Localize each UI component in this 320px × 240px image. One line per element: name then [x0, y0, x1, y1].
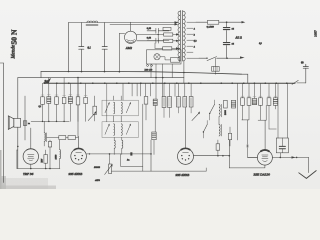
speaker cone [8, 116, 14, 130]
right bank drops [242, 83, 244, 98]
magic eye tube AM2 [125, 31, 137, 43]
rail Rb (mid bus) [18, 77, 184, 79]
coupling capacitor C14 [130, 152, 132, 155]
resistor [168, 97, 172, 108]
output transformer T2 [23, 121, 27, 126]
volume pot P2 [109, 164, 112, 174]
resistor [189, 97, 193, 108]
T2 top lead [24, 96, 26, 121]
capacitor C2 [102, 47, 107, 50]
capacitor C20 [303, 64, 308, 68]
V2 anode column [77, 78, 79, 97]
wire arrow [242, 21, 246, 23]
IF coil [114, 124, 115, 136]
output coupling box [276, 138, 288, 153]
electrolytic C13 [231, 100, 235, 108]
crossover x mark [246, 145, 248, 147]
long vertical to V4 grid [264, 120, 266, 150]
long vertical x=287.5 [287, 83, 289, 138]
IF trimmer [105, 125, 109, 134]
capacitor C8 [147, 38, 169, 43]
IF coil [114, 102, 115, 114]
electrolytic C10 [223, 43, 229, 45]
IF coil [121, 102, 122, 114]
middle band drops [131, 83, 133, 96]
svg-text:0,1/250: 0,1/250 [207, 25, 215, 28]
AVC pot arrow [192, 113, 199, 120]
chassis ground symbol [299, 171, 316, 179]
IF can 2 [102, 122, 138, 138]
transformer T1 core [181, 11, 183, 62]
volume pot P1 [93, 106, 97, 114]
eye feed wire row 2 [137, 40, 176, 42]
rail Rc thin right extension [297, 82, 306, 84]
band switch S1b [203, 125, 207, 133]
capacitor C1 [79, 47, 84, 50]
svg-text:1057: 1057 [314, 30, 318, 37]
wire V2-V3 coupling [86, 153, 151, 155]
V4 anode wire [272, 156, 308, 158]
junction dots on rail R2 [44, 71, 288, 84]
L1 core bar [86, 24, 98, 26]
T2 bottom lead [24, 125, 26, 140]
left bank bus [31, 120, 69, 122]
wire drop with C1 [81, 23, 83, 72]
resistor R13 [163, 27, 171, 30]
tube V4 RES964 [257, 150, 272, 165]
V3 grid lead [185, 108, 187, 149]
tube V3 935SN38 [178, 148, 194, 164]
svg-text:1000: 1000 [55, 154, 58, 160]
ground drop [308, 157, 310, 172]
pilot lamp box [147, 50, 182, 64]
junction blob / tap arrow at rails left [45, 79, 51, 84]
long vertical x=278 [276, 83, 279, 138]
resistor R27 [216, 144, 220, 150]
resistor R12 [163, 47, 172, 50]
T1 core ground drop [183, 61, 185, 83]
electrolytic C9 [226, 22, 228, 27]
wire drop with C2 [104, 23, 106, 72]
tube V1 TRF36 [23, 149, 38, 164]
cathode wire [17, 168, 60, 170]
T1 primary winding [178, 11, 180, 61]
left bank components [41, 97, 45, 105]
magic eye box left edge [118, 33, 120, 71]
resistor R22 [44, 155, 48, 164]
row3 riser [154, 43, 156, 48]
link row1-row2 [157, 35, 159, 41]
left component bank drops [42, 83, 44, 97]
grid return drop [248, 120, 258, 157]
svg-text:50 N: 50 N [10, 29, 19, 44]
svg-text:RE5 DAL30: RE5 DAL30 [253, 173, 271, 177]
can link wires [114, 116, 122, 122]
IF trimmer [126, 103, 130, 112]
T1 secondary winding [183, 11, 185, 61]
capacitor C7 [147, 28, 169, 33]
IF trimmer [126, 125, 130, 134]
link wire [47, 137, 78, 139]
rail Ra left riser [40, 71, 42, 77]
svg-text:m: m [28, 122, 30, 125]
V2 grid lead [78, 137, 80, 149]
rail Ra (HT bus) [41, 71, 242, 74]
wire left drop [68, 23, 70, 72]
V3 anode wire [194, 155, 230, 157]
component above V2 [77, 105, 79, 137]
page border line [0, 63, 4, 183]
svg-text:Mende: Mende [12, 44, 17, 59]
resistor R25 [228, 133, 231, 139]
svg-text:TRF 36: TRF 36 [23, 172, 34, 176]
antenna coil L1 [87, 21, 98, 23]
padder resistor R20 [59, 136, 66, 140]
pilot lamp [154, 54, 160, 60]
resistor [177, 97, 181, 108]
speaker coil box [14, 118, 21, 127]
electrolytic C12 [152, 132, 156, 140]
resistor R10 [164, 33, 173, 36]
speaker feed wire [17, 78, 19, 169]
svg-text:220 110: 220 110 [145, 69, 153, 72]
mains arrow [240, 56, 245, 58]
bottom wire right [229, 165, 265, 168]
lamp box drops to rails [151, 64, 172, 99]
second dial wire (with arrow) [110, 23, 175, 25]
resistor R24 [144, 97, 148, 105]
switch on Rc right [292, 80, 298, 84]
wire eye left [119, 32, 124, 34]
oscillator coil L2 [44, 133, 45, 141]
block capacitor box [212, 67, 220, 72]
fuse F1 [207, 20, 218, 24]
can feed drop [122, 83, 124, 100]
lamp series resistor [171, 58, 180, 63]
svg-text:0,1: 0,1 [39, 106, 42, 108]
right bank components [241, 98, 245, 106]
fuse wire [196, 21, 242, 23]
band switch S1a [210, 104, 215, 113]
IF trimmer [105, 103, 109, 112]
HT dropper vertical [228, 140, 230, 168]
svg-text:935 SN3B: 935 SN3B [176, 173, 190, 177]
IF coil [121, 124, 122, 136]
osc coil L4 [219, 104, 220, 116]
resistor [162, 97, 166, 108]
svg-text:935 SN3B: 935 SN3B [69, 172, 83, 176]
antenna trimmer riser [305, 68, 307, 83]
svg-text:4679: 4679 [95, 179, 101, 182]
padder resistor R21 [68, 136, 76, 140]
IF can 1 [102, 100, 138, 116]
resistor R26 [224, 100, 228, 108]
tube V2 935SN38 [71, 149, 87, 165]
scan shadow bottom-left [0, 178, 48, 189]
trimmer lead vertical [106, 83, 108, 122]
mains switch [199, 57, 227, 61]
V1 cathode lead [30, 164, 32, 168]
top wire to transformer (with arrow) [69, 22, 175, 24]
resistor R11 [164, 39, 173, 42]
rail Rc (ground bus) [44, 82, 295, 84]
electrolytic C11 [153, 99, 157, 105]
long vertical x=237.5 [237, 83, 239, 140]
right bank links [242, 105, 249, 120]
T1 secondary taps [187, 22, 199, 58]
svg-text:3000: 3000 [224, 109, 227, 115]
coil L3 [60, 150, 61, 159]
middle band drops 2 [163, 83, 165, 96]
selector terminals [147, 65, 149, 67]
grid resistor R23 [48, 142, 51, 148]
rail Ra right step [242, 74, 248, 83]
osc coil L5 [219, 124, 220, 136]
coils below can2 [114, 140, 115, 148]
AVC branch [121, 154, 143, 171]
vertical x=269 [269, 105, 276, 129]
resistor [183, 97, 187, 108]
svg-text:AZ 11: AZ 11 [235, 37, 243, 40]
eye feed wire row 1 [137, 34, 176, 36]
eye feed wire row 3 [155, 47, 176, 49]
svg-text:50000: 50000 [94, 166, 101, 169]
AM2 top wire [130, 22, 132, 31]
svg-text:AM2: AM2 [125, 46, 133, 50]
cathode line V3 [112, 170, 207, 172]
V1 grid lead [30, 128, 32, 149]
